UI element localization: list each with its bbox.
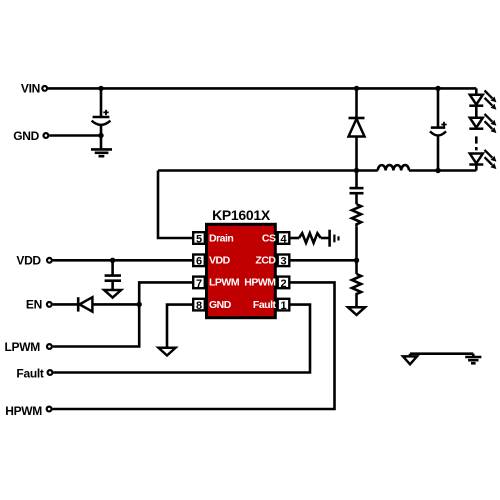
svg-text:VDD: VDD [209, 255, 231, 267]
svg-text:Drain: Drain [209, 232, 233, 244]
svg-text:LPWM: LPWM [5, 340, 41, 354]
svg-text:GND: GND [209, 299, 232, 311]
svg-text:LPWM: LPWM [209, 277, 240, 289]
svg-text:ZCD: ZCD [255, 255, 276, 267]
svg-text:2: 2 [280, 278, 286, 290]
svg-text:8: 8 [196, 300, 202, 312]
svg-text:VDD: VDD [16, 254, 41, 268]
svg-text:6: 6 [196, 256, 202, 268]
svg-text:4: 4 [280, 233, 287, 245]
svg-text:Fault: Fault [253, 299, 277, 311]
svg-text:7: 7 [196, 278, 202, 290]
svg-text:VIN: VIN [21, 81, 40, 95]
svg-text:GND: GND [13, 129, 39, 143]
svg-text:KP1601X: KP1601X [212, 207, 271, 223]
svg-text:5: 5 [196, 233, 202, 245]
svg-text:EN: EN [26, 298, 42, 312]
svg-text:3: 3 [280, 256, 286, 268]
svg-text:HPWM: HPWM [5, 404, 42, 418]
svg-text:1: 1 [280, 300, 286, 312]
svg-text:HPWM: HPWM [244, 277, 276, 289]
svg-text:Fault: Fault [16, 366, 43, 380]
svg-text:CS: CS [262, 232, 276, 244]
